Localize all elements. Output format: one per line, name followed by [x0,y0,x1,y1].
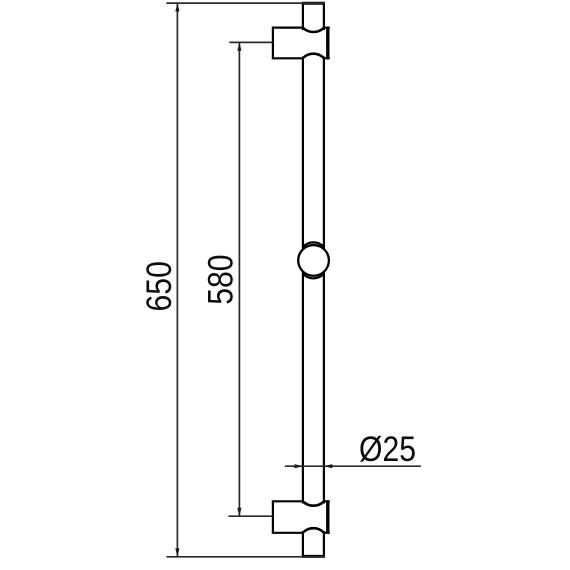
top wall bracket body [272,28,330,59]
dimension 650 extension line top [166,2,324,4]
dimension 650 arrow top [175,3,179,11]
dimension 580 extension line bottom [228,515,273,517]
top bracket saddle arc upper [303,28,324,32]
rail bar upper section right edge [323,57,325,249]
dimension 650 arrow bottom [175,548,179,556]
dimension 580 extension line top [229,41,273,43]
slider knob top collar arc [303,242,324,247]
slider knob bottom collar arc [303,274,324,279]
svg-text:Ø25: Ø25 [359,429,416,469]
bottom wall bracket body [272,501,330,533]
rail bar bottom stub right edge [323,531,325,556]
dimension 650 extension line bottom [166,556,324,558]
dimension diameter 25 arrow left (points right at bar left edge) [295,464,303,468]
rail bar bottom stub left edge [302,531,304,556]
rail bar lower section left edge [302,273,304,504]
dimension diameter 25 leader line [285,465,421,467]
dimension 650 line [176,3,178,557]
rail bar top stub left edge [302,4,304,31]
dimension 580 arrow bottom [237,508,241,516]
svg-text:580: 580 [200,254,240,304]
rail bar top end cap [302,2,325,5]
rail bar bottom end cap [302,555,325,558]
rail bar top stub right edge [323,4,325,31]
svg-text:650: 650 [139,261,179,311]
dimension 580 line [238,42,240,516]
dimension 580 arrow top [237,42,241,50]
slider knob body [298,245,329,276]
rail bar lower section right edge [323,273,325,504]
top wall bracket wall plate (thick right edge) [326,27,329,59]
bottom bracket saddle arc upper [303,502,324,506]
rail bar upper section left edge [302,57,304,249]
bottom wall bracket wall plate (thick right edge) [326,501,329,534]
dimension diameter 25 arrow right (points left at bar right edge) [324,464,332,468]
top bracket saddle arc lower [303,54,324,58]
bottom bracket saddle arc lower [303,528,324,532]
